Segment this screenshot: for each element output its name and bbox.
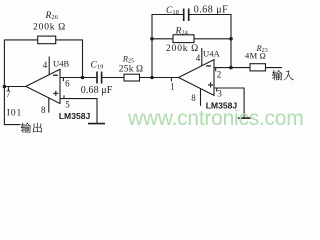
resistor R23 body bbox=[250, 64, 266, 71]
svg-text:4: 4 bbox=[43, 60, 48, 70]
wire R24 left lead bbox=[152, 38, 173, 40]
wire R24 right lead bbox=[194, 38, 231, 40]
resistor R25 body bbox=[124, 74, 140, 81]
wire top loop C18 left side bbox=[152, 15, 183, 78]
wire R26 right lead down to node bbox=[56, 40, 83, 78]
pin 2 tick bbox=[215, 68, 217, 72]
svg-text:7: 7 bbox=[6, 89, 11, 99]
wire top loop C18 right side bbox=[189, 15, 231, 68]
op-amp U4B pin 8 stub bbox=[48, 98, 50, 113]
svg-text:R25: R25 bbox=[122, 53, 134, 64]
wire R23 to input terminal bbox=[266, 67, 283, 69]
node junction R24 right bbox=[229, 37, 233, 41]
op-amp U4B minus sign bbox=[53, 75, 58, 76]
svg-text:C18: C18 bbox=[166, 6, 179, 16]
wire output loop: R26 left lead, left rail, output lead bbox=[4, 40, 37, 125]
wire C19 to R25 bbox=[102, 77, 124, 79]
wire U4A noninverting pin 3 to ground bbox=[214, 88, 244, 118]
svg-text:0.68 μF: 0.68 μF bbox=[81, 85, 113, 96]
svg-text:4: 4 bbox=[196, 53, 201, 63]
svg-text:R26: R26 bbox=[45, 11, 59, 21]
svg-text:U4A: U4A bbox=[203, 49, 221, 59]
capacitor C18 plates bbox=[184, 9, 189, 22]
svg-text:200k Ω: 200k Ω bbox=[166, 44, 199, 54]
svg-text:0.68 μF: 0.68 μF bbox=[194, 5, 228, 16]
node junction U4A output bbox=[150, 76, 154, 80]
pin 1 tick bbox=[170, 78, 172, 82]
svg-text:8: 8 bbox=[41, 105, 46, 115]
op-amp U4A triangle bbox=[179, 60, 215, 96]
terminal label input (shu ru) bbox=[272, 70, 294, 80]
svg-text:4M Ω: 4M Ω bbox=[245, 51, 266, 61]
svg-text:2: 2 bbox=[217, 70, 222, 80]
op-amp U4A pin 4 stub bbox=[201, 48, 203, 66]
wire U4B noninverting pin 5 to ground bbox=[60, 99, 97, 123]
svg-text:C19: C19 bbox=[91, 61, 104, 71]
svg-text:3: 3 bbox=[217, 89, 222, 99]
wire U4A inverting input pin 2 to R23 bbox=[214, 67, 250, 69]
op-amp U4A plus sign bbox=[208, 82, 213, 87]
wire R25 to U4A output pin 1 bbox=[140, 77, 179, 79]
op-amp U4B plus sign bbox=[53, 91, 58, 96]
svg-text:U4B: U4B bbox=[53, 59, 70, 69]
node junction pin6/R26 feedback bbox=[81, 76, 85, 80]
pin 7 tick bbox=[7, 87, 9, 91]
pin 5 tick bbox=[63, 95, 65, 98]
pin 6 tick bbox=[62, 78, 64, 82]
node junction at output rail bbox=[3, 85, 7, 89]
ground bar at U4B pin 5 bbox=[88, 123, 105, 125]
op-amp U4A pin 8 stub bbox=[200, 88, 202, 106]
wire op-amp U4B output pin 7 bbox=[4, 86, 26, 88]
svg-text:1: 1 bbox=[170, 82, 175, 92]
ground bar at U4A pin 3 bbox=[238, 117, 252, 119]
svg-text:6: 6 bbox=[65, 79, 70, 89]
resistor R26 body bbox=[38, 36, 56, 44]
op-amp U4A minus sign bbox=[206, 65, 211, 66]
op-amp U4B triangle bbox=[26, 69, 60, 103]
svg-text:R24: R24 bbox=[175, 27, 189, 37]
svg-text:I01: I01 bbox=[7, 108, 22, 118]
svg-text:www.cntronics.com: www.cntronics.com bbox=[127, 107, 303, 130]
pin 3 tick bbox=[216, 88, 218, 92]
svg-text:25k Ω: 25k Ω bbox=[119, 65, 144, 75]
node junction pin 2 bbox=[229, 66, 233, 70]
op-amp U4B pin 4 stub bbox=[48, 57, 50, 75]
svg-text:5: 5 bbox=[65, 100, 70, 110]
resistor R24 body bbox=[173, 35, 194, 43]
svg-text:LM358J: LM358J bbox=[59, 111, 91, 121]
svg-text:8: 8 bbox=[191, 93, 196, 103]
node junction R24 left bbox=[150, 37, 154, 41]
svg-text:200k Ω: 200k Ω bbox=[33, 22, 66, 32]
terminal label output (shu chu) bbox=[21, 123, 42, 133]
wire U4B inverting input pin 6 to C19 bbox=[60, 77, 96, 79]
capacitor C19 plates bbox=[97, 72, 102, 84]
